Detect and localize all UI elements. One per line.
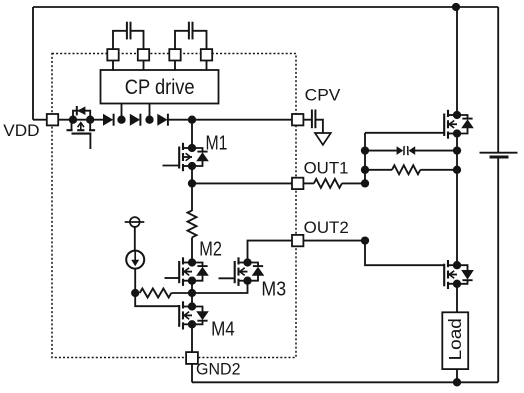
transistor M2: [165, 257, 209, 286]
wire OUT1 to gate resistor: [303, 182, 314, 184]
node OUT1 junction: [188, 179, 196, 187]
wire OUT1: [192, 182, 292, 184]
resistor R-gate-source: [392, 165, 420, 174]
wire top rail to Q-high drain: [456, 7, 458, 115]
transistor M1: [163, 143, 209, 171]
resistor R-M4 gate node: [140, 289, 172, 298]
svg-text:M4: M4: [211, 319, 235, 341]
pin pad CP4: [201, 49, 212, 60]
wire resistor to source node: [420, 169, 457, 171]
wire battery negative to bottom rail: [497, 157, 499, 382]
pin pad GND2: [186, 352, 198, 364]
wire M4 source to GND2 pad: [191, 324, 193, 352]
wire GND2 pad to bottom rail: [191, 364, 193, 382]
wire gate resistor to gate node: [342, 182, 365, 184]
wire top rail to battery positive: [497, 7, 499, 152]
node zener row right: [453, 146, 461, 154]
svg-text:M2: M2: [199, 238, 222, 260]
node M2/M3/M4 junction: [188, 289, 196, 297]
transistor M3: [219, 257, 265, 286]
node CP out1 junction: [117, 116, 125, 124]
wire bias terminal crossbar: [125, 221, 145, 223]
wire current source node to M4 gate: [135, 293, 179, 306]
transistor Q-low: [444, 260, 474, 289]
pin pad OUT2: [292, 235, 303, 246]
transistor Q-VDD pass (rotated MOSFET with body diode): [58, 106, 103, 149]
resistor R-M1/M2: [188, 210, 197, 237]
svg-text:CPV: CPV: [305, 87, 341, 105]
svg-text:OUT1: OUT1: [304, 160, 349, 178]
wire OUT2 to Q-low gate net: [303, 240, 365, 242]
node resistor row left: [361, 166, 369, 174]
node top-rail / Q-high drain tap: [452, 3, 460, 11]
wire current source to node: [134, 269, 136, 293]
battery V1: [480, 153, 518, 157]
wire CPV to external cap: [303, 119, 311, 121]
capacitor C2 (flying cap): [175, 22, 207, 50]
wire to zener pair: [365, 150, 397, 152]
ground CPV (open triangle): [315, 133, 331, 145]
svg-text:CP drive: CP drive: [125, 76, 195, 99]
wire Q-low source to Load: [456, 284, 458, 313]
wire M2 source to M4 drain: [191, 281, 193, 307]
wire resistor to M2 drain: [191, 237, 193, 262]
wire zener pair to source node: [415, 150, 457, 152]
node Load / bottom rail: [453, 378, 461, 386]
wire CP1 to CP drive: [112, 61, 114, 71]
pin pad VDD: [47, 114, 58, 125]
wire OUT2 to M3 drain: [248, 241, 292, 263]
pin pad CP1: [107, 49, 118, 60]
wire Q-high source down to Q-low drain: [456, 134, 458, 266]
node CPV / M1 drain junction: [188, 116, 196, 124]
svg-text:Load: Load: [445, 318, 465, 360]
pin pad CP2: [138, 49, 149, 60]
wire top VDD rail: [33, 6, 498, 8]
pin pad OUT1: [292, 178, 303, 189]
diode D3: [157, 114, 168, 126]
diode pair Z1/Z2 back-to-back gate clamp: [397, 146, 416, 155]
wire into VDD pad: [33, 119, 47, 121]
wire CP4 to CP drive: [206, 61, 208, 71]
wire Load to bottom rail: [456, 369, 458, 382]
svg-text:VDD: VDD: [3, 122, 39, 140]
svg-text:M3: M3: [261, 278, 286, 300]
Load box: [442, 312, 468, 369]
wire CP drive out1: [121, 104, 123, 118]
current source I1: [126, 251, 144, 269]
pin pad CP3: [169, 49, 180, 60]
transistor M4: [179, 301, 209, 329]
wire M3 source to M4 drain node: [192, 281, 248, 293]
wire CPV node to M1 drain: [191, 120, 193, 148]
diode D1: [103, 114, 114, 126]
wire to gate-source resistor: [365, 169, 392, 171]
pin pad CPV: [292, 114, 303, 125]
CP drive block: [101, 70, 219, 104]
wire left VDD drop: [32, 7, 34, 120]
node current source / resistor: [131, 289, 139, 297]
node resistor row right: [453, 166, 461, 174]
wire CP output to CPV: [168, 119, 292, 121]
wire Q-high gate net vertical: [364, 133, 366, 184]
diode D2: [130, 114, 141, 126]
svg-text:OUT2: OUT2: [304, 219, 349, 237]
node CP out2 junction: [145, 116, 153, 124]
node OUT2 gate net: [361, 236, 369, 244]
svg-text:GND2: GND2: [196, 361, 241, 379]
svg-text:M1: M1: [206, 133, 228, 155]
IC boundary dotted box: [52, 54, 296, 358]
node gate net / OUT1: [361, 179, 369, 187]
capacitor C-CPV: [312, 110, 316, 129]
wire M1 source to OUT1 node / resistor: [191, 166, 193, 211]
terminal bias input (circle): [130, 217, 140, 227]
wire cap to gnd symbol: [315, 120, 323, 133]
wire resistor to M2/M4 node: [171, 292, 192, 294]
wire CP2 to CP drive: [143, 61, 145, 71]
wire CP3 to CP drive: [174, 61, 176, 71]
wire OUT2 net to Q-low gate: [365, 241, 445, 266]
transistor Q-high: [444, 110, 474, 139]
wire CP drive out2: [149, 104, 151, 118]
wire bias terminal to current source: [134, 227, 136, 251]
resistor R-OUT1 gate: [314, 179, 342, 188]
wire bottom GND rail: [192, 381, 498, 383]
capacitor C1 (flying cap): [113, 22, 144, 50]
node zener row left: [361, 146, 369, 154]
wire to Q-high gate: [365, 132, 445, 134]
